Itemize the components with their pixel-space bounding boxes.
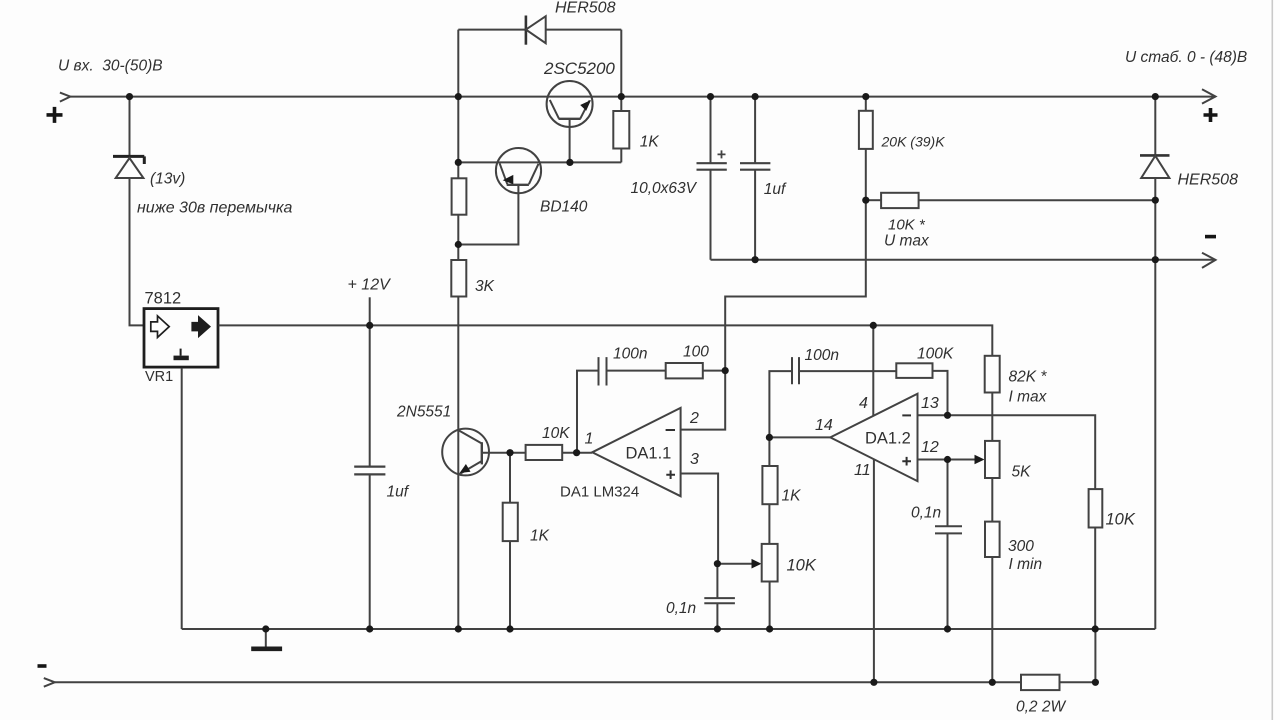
node: DA1.2 output node [766,434,773,441]
svg-text:U max: U max [884,233,930,250]
wire: 100n (DA1.2) left lead [769,371,792,437]
svg-text:12: 12 [921,439,939,456]
resistor 82K* I max [985,356,1000,393]
svg-text:2: 2 [689,410,699,427]
transistor Q2 BD140 circle [496,148,541,193]
resistor 10K* U max [881,193,919,208]
wire: wiper arrow to 10K pot [717,563,753,565]
wire: 2SC5200 base down [569,119,571,163]
node: minus rail / 1uf [752,256,759,263]
node: ground / 1uf [366,625,373,632]
pin number labels [585,395,939,479]
node: ground / 2N5551 emitter [455,625,462,632]
resistor 100K [896,363,932,378]
wire: pin12 wiper arrow [948,459,977,461]
node: minus rail / right diode [1152,256,1159,263]
svg-text:U стаб. 0 - (48)В: U стаб. 0 - (48)В [1125,49,1247,66]
wire: zener to 7812 [130,178,145,325]
wire: pin3 chain [681,474,719,564]
node: ground / 0,1n left [714,625,721,632]
transistor Q1 2SC5200 circle [547,81,593,127]
potentiometer 10K [762,544,778,582]
resistor 3K [451,260,466,297]
svg-text:100K: 100K [917,346,954,363]
svg-text:I max: I max [1009,389,1048,406]
wire: pin14 output lead [769,436,830,438]
transistor Q3 2N5551 circle [442,429,489,476]
resistor 1K (2SC5200 base) [613,111,629,149]
polarity symbols [38,107,1218,666]
7812 ground pin symbol [180,349,182,356]
svg-text:14: 14 [815,417,833,434]
wire: top + rail [71,96,1216,98]
resistor 300 I min [985,522,1000,557]
svg-text:300: 300 [1008,538,1034,555]
svg-text:10K: 10K [542,425,570,442]
svg-text:1K: 1K [530,528,550,545]
capacitor 0,1n (DA1.1) leads [716,564,718,629]
wire: right diode vertical [1154,97,1156,629]
plus terminal top left [47,107,63,123]
svg-text:100n: 100n [805,347,839,364]
input arrow left [60,93,70,102]
svg-text:82K *: 82K * [1009,369,1048,386]
capacitor 1uf (7812 output) leads [369,325,371,629]
DA1.2 minus mark [902,414,911,416]
svg-text:11: 11 [854,462,871,479]
capacitor 0,1n (DA1.2) leads [947,460,949,630]
svg-text:1: 1 [585,431,594,448]
wire: base lead 2N5551 [482,452,526,454]
node: ground / earth [262,625,269,632]
wire: pin4 power lead [872,325,874,415]
wire: diode branch right vertical [620,30,622,97]
svg-text:(13v): (13v) [150,171,185,188]
wire: DA1.2 output to pot chain [768,437,770,629]
resistor 1K (DA1.2 divider) [762,466,777,504]
output arrow right (-) [1202,253,1216,268]
capacitor 0,1n (DA1.1) plates [704,598,735,603]
node: rail / 20K [862,93,869,100]
svg-text:U вх. 30-(50)В: U вх. 30-(50)В [58,58,163,75]
wire: 10K right bottom [1094,528,1096,630]
DA1.2 plus mark [902,457,911,466]
BD140 emitter diagonal [500,163,508,184]
svg-text:2SC5200: 2SC5200 [543,59,615,78]
capacitor 0,1n (DA1.2) plates [935,526,962,533]
node: rail / right diode [1152,93,1159,100]
svg-text:3K: 3K [475,278,495,295]
svg-text:0,2 2W: 0,2 2W [1016,699,1066,716]
svg-text:DA1.2: DA1.2 [865,430,911,448]
node: 1K-3K junction [455,241,462,248]
DA1.1 plus mark [666,470,675,479]
capacitor 1uf (output filter) leads [754,97,756,260]
BD140 collector diagonal [529,164,539,184]
2N5551 base bar [481,442,483,464]
svg-text:10K: 10K [787,557,817,575]
node: input rail / zener [126,93,133,100]
svg-text:0,1n: 0,1n [666,600,696,617]
capacitor polarity + [718,150,726,158]
node: rail / cap1 [707,93,714,100]
node: rail / cap2 [752,93,759,100]
svg-text:1uf: 1uf [387,484,410,501]
capacitor 10,0x63V plates [697,163,727,170]
node: ground / 0,1n right [944,625,951,632]
BD140 emitter arrow [503,175,514,184]
wire: pin11 to bottom rail [873,459,875,682]
output arrow right (+) [1202,89,1216,103]
svg-text:1K: 1K [782,488,802,505]
wire: ground rail [182,628,1156,630]
svg-text:0,1n: 0,1n [911,505,941,522]
regulator VR1 7812 box [144,309,218,368]
resistor 0,2 2W [1021,675,1060,690]
node: 2SC5200 base [566,159,573,166]
svg-text:10K *: 10K * [888,217,926,234]
minus terminal bottom left [38,664,47,668]
wire: 10K U max to right diode [919,199,1156,201]
BD140 base bar [507,184,529,186]
wire: 100n to pin1 [577,371,599,453]
wire: pin13 lead and node to 10K [918,415,1096,489]
node: bottom rail / 300 chain [989,679,996,686]
capacitor 1uf (7812 output) plates [354,467,385,475]
wire: 1K collector resistor chain [570,97,621,163]
node: ground / pot 10K [766,625,773,632]
capacitor 100n (DA1.1) plates [599,357,607,385]
svg-text:HER508: HER508 [1178,172,1239,189]
svg-text:20K (39)K: 20K (39)K [881,134,946,150]
node: ground / 1K [506,625,513,632]
node: feedback / pin2 [722,367,729,374]
2SC5200 emitter arrow [580,100,591,111]
node: BD140 emitter line left [455,159,462,166]
wire: 100n to 100K [799,370,896,372]
op-amp U1 DA1.1 triangle [592,408,680,496]
svg-text:DA1 LM324: DA1 LM324 [560,484,639,501]
svg-text:ниже 30в перемычка: ниже 30в перемычка [137,200,293,217]
7812 input arrow (open) [151,316,169,338]
2SC5200 emitter diagonal [580,100,589,118]
capacitor 1uf (output filter) plates [740,163,770,170]
wire: zener drop [129,97,131,155]
7812 output arrow (filled) [191,315,211,338]
potentiometer 5K [985,441,1000,478]
wiper arrowhead 5K [975,455,985,465]
svg-text:HER508: HER508 [555,0,616,17]
node: ground / 10K right [1092,625,1099,632]
op-amp input polarity marks [666,415,911,479]
node: rail / 1K chain [455,93,462,100]
wire: DA1.1 feedback node [703,370,725,372]
node: +12V / pin4 [870,322,877,329]
node: pin12 node [944,456,951,463]
capacitor 10,0x63V leads [710,97,712,260]
wire: pin12 lead [918,459,948,461]
svg-text:13: 13 [921,395,939,412]
node: pin3 / wiper [714,560,721,567]
2N5551 emitter diagonal [459,461,482,474]
capacitor 100n (DA1.2) plates [792,357,799,384]
node: rail / 1K+diode [618,93,625,100]
wire: bottom rail to ground rail [1094,629,1096,682]
zener diode triangle [116,158,144,178]
svg-text:5K: 5K [1012,464,1032,481]
wire: 82K/5K/300 chain [991,393,993,683]
diode HER508 (right) triangle [1141,156,1169,178]
svg-text:DA1.1: DA1.1 [626,445,672,463]
wire: 100 to 100n [607,370,666,372]
svg-text:7812: 7812 [145,290,182,308]
svg-text:10,0x63V: 10,0x63V [631,180,698,197]
node: 20K / 10K Umax [862,197,869,204]
svg-text:1uf: 1uf [764,181,787,198]
svg-text:3: 3 [690,451,699,468]
plus terminal top right [1204,108,1218,122]
wiper arrowhead [752,559,762,569]
wire: pin1 output lead [562,452,592,454]
2N5551 collector diagonal [459,430,482,443]
resistor 1K (DA1.1 input) [503,503,518,541]
2N5551 emitter arrow [460,464,471,473]
wire: DA1.1 pin2 long chain [681,200,866,429]
node: bottom rail / 0,2 [1092,679,1099,686]
wire: 7812 ground down [181,368,183,629]
node: +12V / 1uf cap [366,322,373,329]
resistor 1K (driver) [452,178,467,214]
zener diode (13v) cathode bar [113,156,144,164]
resistor 10K (2N5551 base) [526,445,563,460]
2SC5200 base bar [559,118,581,120]
svg-text:+ 12V: + 12V [348,277,392,294]
wire: +12V label stub [369,297,371,325]
svg-text:VR1: VR1 [145,369,173,385]
node: pin13 node [944,412,951,419]
resistor 20K (39)K [859,111,873,149]
wire: 1K/3K chain vertical [457,97,459,629]
svg-text:BD140: BD140 [540,199,588,216]
svg-text:4: 4 [859,395,868,412]
input arrow bottom left [44,678,55,687]
wire: BD140 base down-left [458,185,518,245]
svg-text:2N5551: 2N5551 [396,404,451,421]
svg-text:I min: I min [1009,556,1043,573]
IC labels upright [145,290,911,501]
node: pin1 [573,449,580,456]
minus terminal right [1205,235,1216,239]
node: bottom rail / pin11 [870,679,877,686]
2SC5200 collector diagonal [550,100,559,119]
wire: 10K U max left lead [866,199,881,201]
wire: 100K right to pin13 node [933,371,948,415]
wire: bottom minus rail [55,681,1095,683]
op-amp U2 DA1.2 triangle [830,394,917,481]
svg-text:100: 100 [683,344,709,361]
svg-text:100n: 100n [613,346,647,363]
wire: 7812 output / +12V rail [219,325,993,355]
svg-text:10K: 10K [1106,511,1136,529]
node: 2N5551 base / 1K [506,449,513,456]
wire: 1K emitter chain [509,453,511,629]
node: right diode anode [1152,197,1159,204]
wire: diode branch horizontals [458,29,621,31]
resistor 10K (right) [1089,489,1103,527]
wire: BD140 emitter line [458,161,570,163]
wire: minus output rail [711,259,1216,261]
DA1.1 minus mark [666,429,675,431]
wire: diode branch left vertical [457,30,459,97]
diode HER508 (right) cathode bar [1140,154,1170,157]
ground symbol [265,629,267,647]
diode HER508 (top) [525,16,528,45]
video edge line right [1272,0,1274,720]
resistor 100 [666,363,703,378]
wire: 20K chain [865,97,867,201]
svg-text:1K: 1K [640,134,660,151]
